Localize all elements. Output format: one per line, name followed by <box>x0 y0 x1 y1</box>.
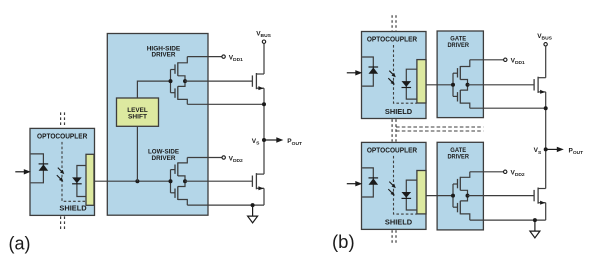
svg-text:SHIELD: SHIELD <box>385 220 412 227</box>
svg-text:SHIELD: SHIELD <box>385 109 412 116</box>
svg-text:(a): (a) <box>9 233 31 253</box>
junction U4 return at Q3 source (b) <box>544 106 548 110</box>
wire Q3 source down to Q4 drain (b) <box>545 92 547 189</box>
svg-text:POUT: POUT <box>287 138 302 147</box>
gate driver U6 (b) NMOS transistor <box>453 196 470 221</box>
high-side driver (a) gate bus wire <box>170 70 172 93</box>
high-side driver label (a) <box>147 45 181 58</box>
low-side driver (a) gate bus wire <box>170 170 172 193</box>
terminal VBUS (a) <box>262 40 265 43</box>
gate driver label (b bottom) <box>447 147 469 160</box>
wire high-side output to Q1 gate (a) <box>185 80 252 82</box>
wire optocoupler U3 output to gate driver U4 (b) <box>426 84 453 86</box>
input signal arrow into U1 (a) <box>15 169 30 174</box>
gate driver U4 (b) output junction <box>466 83 470 87</box>
gate driver U4 (b) PMOS transistor <box>453 60 470 85</box>
isolation barrier dashes below U5 (b bottom) <box>392 230 396 244</box>
light emission arrows in U3 (b top) <box>388 71 396 85</box>
svg-text:DRIVER: DRIVER <box>447 153 469 160</box>
gate driver U6 (b) return rail wire <box>470 219 546 221</box>
wire from optocoupler output to low-side input (a) <box>94 180 171 182</box>
gate driver block U4 body (b top) <box>437 31 483 118</box>
high-side driver (a) positive supply rail wire <box>187 56 221 58</box>
gate driver U6 (b) input junction <box>451 194 455 198</box>
node at level-shift branch (a) <box>135 179 139 183</box>
low-side driver (a) PMOS transistor <box>171 158 188 182</box>
faraday shield strip of U1 (a) <box>86 154 94 205</box>
low-side driver label (a) <box>148 149 179 162</box>
svg-text:OPTOCOUPLER: OPTOCOUPLER <box>367 36 417 44</box>
light emission arrows in U1 (a) <box>57 168 65 182</box>
high-side driver (a) PMOS transistor <box>171 57 188 82</box>
svg-text:SHIFT: SHIFT <box>128 114 148 121</box>
svg-text:DRIVER: DRIVER <box>447 42 469 49</box>
terminal VDD1 (b) <box>504 58 507 61</box>
wire photodiode loop U3 (b top) <box>406 69 417 99</box>
gate driver block U6 body (b bottom) <box>437 142 483 230</box>
wire from branch node up to level shift (a) <box>136 126 138 181</box>
svg-text:VDD2: VDD2 <box>229 155 243 164</box>
faraday shield strip of U5 (b bottom) <box>417 171 426 214</box>
optocoupler U3 (b top) body <box>362 32 427 119</box>
wire optocoupler U5 output to gate driver U6 (b) <box>426 195 453 197</box>
svg-text:VBUS: VBUS <box>537 33 552 42</box>
high-side driver (a) NMOS transistor <box>171 81 188 104</box>
isolation barrier dashes between optocouplers (b) <box>392 119 396 141</box>
svg-text:VS: VS <box>534 147 542 156</box>
gate driver label (b top) <box>447 36 469 49</box>
low-side driver (a) NMOS transistor <box>171 181 188 205</box>
isolation barrier dashes below U1 (a) <box>61 216 65 231</box>
svg-text:OPTOCOUPLER: OPTOCOUPLER <box>37 133 87 141</box>
svg-text:DRIVER: DRIVER <box>152 155 176 162</box>
terminal VDD2 (b) <box>504 170 507 173</box>
junction ground rail (b) <box>533 218 537 222</box>
node VS (b) <box>544 147 548 151</box>
power MOSFET Q3 (b) <box>534 77 546 94</box>
wire VBUS to Q1 drain (a) <box>263 44 265 75</box>
wire LED loop U5 (b bottom) <box>362 168 373 197</box>
level shift block (a) <box>117 98 159 126</box>
svg-text:VS: VS <box>252 138 260 147</box>
power MOSFET Q2 (a) <box>252 173 264 190</box>
gate driver U4 (b) input junction <box>451 83 455 87</box>
ground symbol (a) <box>248 205 258 223</box>
wire Q2 source to ground rail (a) <box>263 188 265 205</box>
high-side driver (a) input junction <box>169 79 173 83</box>
gate driver U4 (b) positive supply rail wire <box>470 59 504 61</box>
terminal VDD1 (a) <box>222 55 225 58</box>
gate driver U6 (b) gate bus wire <box>452 184 454 207</box>
wire U6 output to Q4 gate (b) <box>468 195 535 197</box>
low-side driver (a) output junction <box>183 179 187 183</box>
LED diode inside U5 (b bottom) <box>369 178 379 185</box>
optocoupler U1 (a) body <box>30 128 95 215</box>
LED diode inside U1 (a) <box>39 164 49 171</box>
wire LED loop U1 (a) <box>31 154 44 183</box>
low-side driver (a) return rail wire <box>187 204 264 206</box>
svg-text:DRIVER: DRIVER <box>152 52 176 59</box>
high-side driver (a) return rail wire <box>187 103 264 105</box>
LED diode inside U3 (b top) <box>369 67 379 74</box>
power MOSFET Q1 (a) gate wire <box>251 80 253 82</box>
gate driver U6 (b) PMOS transistor <box>453 172 470 196</box>
gate driver U6 (b) output junction <box>466 194 470 198</box>
POUT arrow (b) <box>546 147 564 152</box>
gate driver U4 (b) return rail wire <box>470 107 546 109</box>
power MOSFET Q3 (b) gate wire <box>533 84 535 86</box>
svg-text:VDD1: VDD1 <box>511 58 525 67</box>
power MOSFET Q4 (b) <box>534 188 546 205</box>
svg-text:(b): (b) <box>332 231 355 252</box>
photodiode inside U5 (b bottom) <box>402 192 412 198</box>
wire Q4 source to ground rail (b) <box>545 203 547 220</box>
isolation barrier dashes above U3 (b top) <box>392 15 396 31</box>
terminal VDD2 (a) <box>222 156 225 159</box>
svg-text:VDD1: VDD1 <box>229 54 243 63</box>
light path dashed line in U1 (a) <box>62 142 86 201</box>
wire from level shift to high-side gate bus (a) <box>137 81 170 98</box>
wire LED loop U3 (b top) <box>362 57 373 86</box>
faraday shield strip of U3 (b top) <box>417 60 426 103</box>
wire low-side output to Q2 gate (a) <box>185 180 252 182</box>
POUT arrow (a) <box>264 137 283 142</box>
svg-text:VBUS: VBUS <box>256 30 271 39</box>
high-side driver (a) output junction <box>183 79 187 83</box>
light path dashed line in U5 (b bottom) <box>394 156 417 214</box>
svg-text:POUT: POUT <box>569 147 584 156</box>
svg-text:VDD2: VDD2 <box>511 170 525 179</box>
photodiode inside U3 (b top) <box>402 81 412 87</box>
wire U4 output to Q3 gate (b) <box>468 84 535 86</box>
optocoupler U5 (b bottom) body <box>362 142 427 229</box>
junction high-side return at Q1 source (a) <box>262 102 266 106</box>
light emission arrows in U5 (b bottom) <box>388 182 396 196</box>
input signal arrow into U3 (b top) <box>347 70 363 75</box>
low-side driver (a) positive supply rail wire <box>187 157 222 159</box>
power MOSFET Q2 (a) gate wire <box>251 180 253 182</box>
terminal VBUS (b) <box>544 43 547 46</box>
low-side driver (a) input junction <box>169 179 173 183</box>
wire Q1 source down to Q2 drain (a) <box>263 88 265 174</box>
isolation barrier dashes above U1 (a) <box>61 112 65 127</box>
gate driver U4 (b) NMOS transistor <box>453 85 470 108</box>
driver block U2 body (a) <box>107 34 208 216</box>
node VS (a) <box>262 138 266 142</box>
power MOSFET Q1 (a) <box>252 73 264 90</box>
svg-text:OPTOCOUPLER: OPTOCOUPLER <box>367 147 417 155</box>
level shift label (a) <box>127 107 148 121</box>
wire photodiode loop U5 (b bottom) <box>406 180 417 210</box>
gate driver U4 (b) gate bus wire <box>452 73 454 96</box>
gate driver U6 (b) positive supply rail wire <box>470 171 504 173</box>
svg-text:SHIELD: SHIELD <box>59 206 86 213</box>
isolation barrier horizontal dashes (b) <box>396 127 483 131</box>
junction ground rail (a) <box>251 203 255 207</box>
photodiode inside U1 (a) <box>72 177 82 183</box>
ground symbol (b) <box>530 220 540 238</box>
wire photodiode loop U1 (a) <box>77 166 86 197</box>
input signal arrow into U5 (b bottom) <box>347 181 363 186</box>
light path dashed line in U3 (b top) <box>394 45 417 103</box>
wire VBUS to Q3 drain (b) <box>545 46 547 78</box>
power MOSFET Q4 (b) gate wire <box>533 195 535 197</box>
